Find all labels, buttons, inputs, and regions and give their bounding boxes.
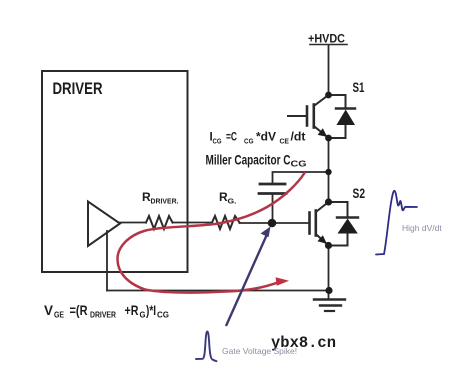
svg-text:Miller Capacitor C: Miller Capacitor C <box>206 152 291 168</box>
svg-text:CE: CE <box>280 137 290 146</box>
svg-text:High dV/dt: High dV/dt <box>402 223 442 233</box>
svg-text:DRIVER.: DRIVER. <box>151 197 179 206</box>
svg-text:CG: CG <box>291 159 307 169</box>
svg-text:GE: GE <box>54 310 64 320</box>
svg-text:=(R: =(R <box>70 302 88 318</box>
svg-text:G.: G. <box>228 197 237 206</box>
svg-text:DRIVER: DRIVER <box>90 310 116 320</box>
svg-text:S2: S2 <box>353 185 366 201</box>
svg-text:CG: CG <box>157 310 169 320</box>
svg-text:Gate Voltage Spike!: Gate Voltage Spike! <box>222 346 297 356</box>
svg-text:V: V <box>44 302 54 318</box>
svg-text:CG: CG <box>244 137 254 146</box>
svg-text:DRIVER: DRIVER <box>53 79 103 98</box>
svg-text:=C: =C <box>226 132 237 144</box>
svg-text:*dV: *dV <box>256 132 276 144</box>
svg-text:)*I: )*I <box>146 302 156 318</box>
svg-text:+HVDC: +HVDC <box>308 34 345 46</box>
svg-text:G: G <box>140 310 146 320</box>
svg-text:S1: S1 <box>353 79 365 95</box>
svg-text:/dt: /dt <box>291 132 306 144</box>
svg-text:CG: CG <box>213 137 222 146</box>
svg-text:+R: +R <box>125 302 139 318</box>
